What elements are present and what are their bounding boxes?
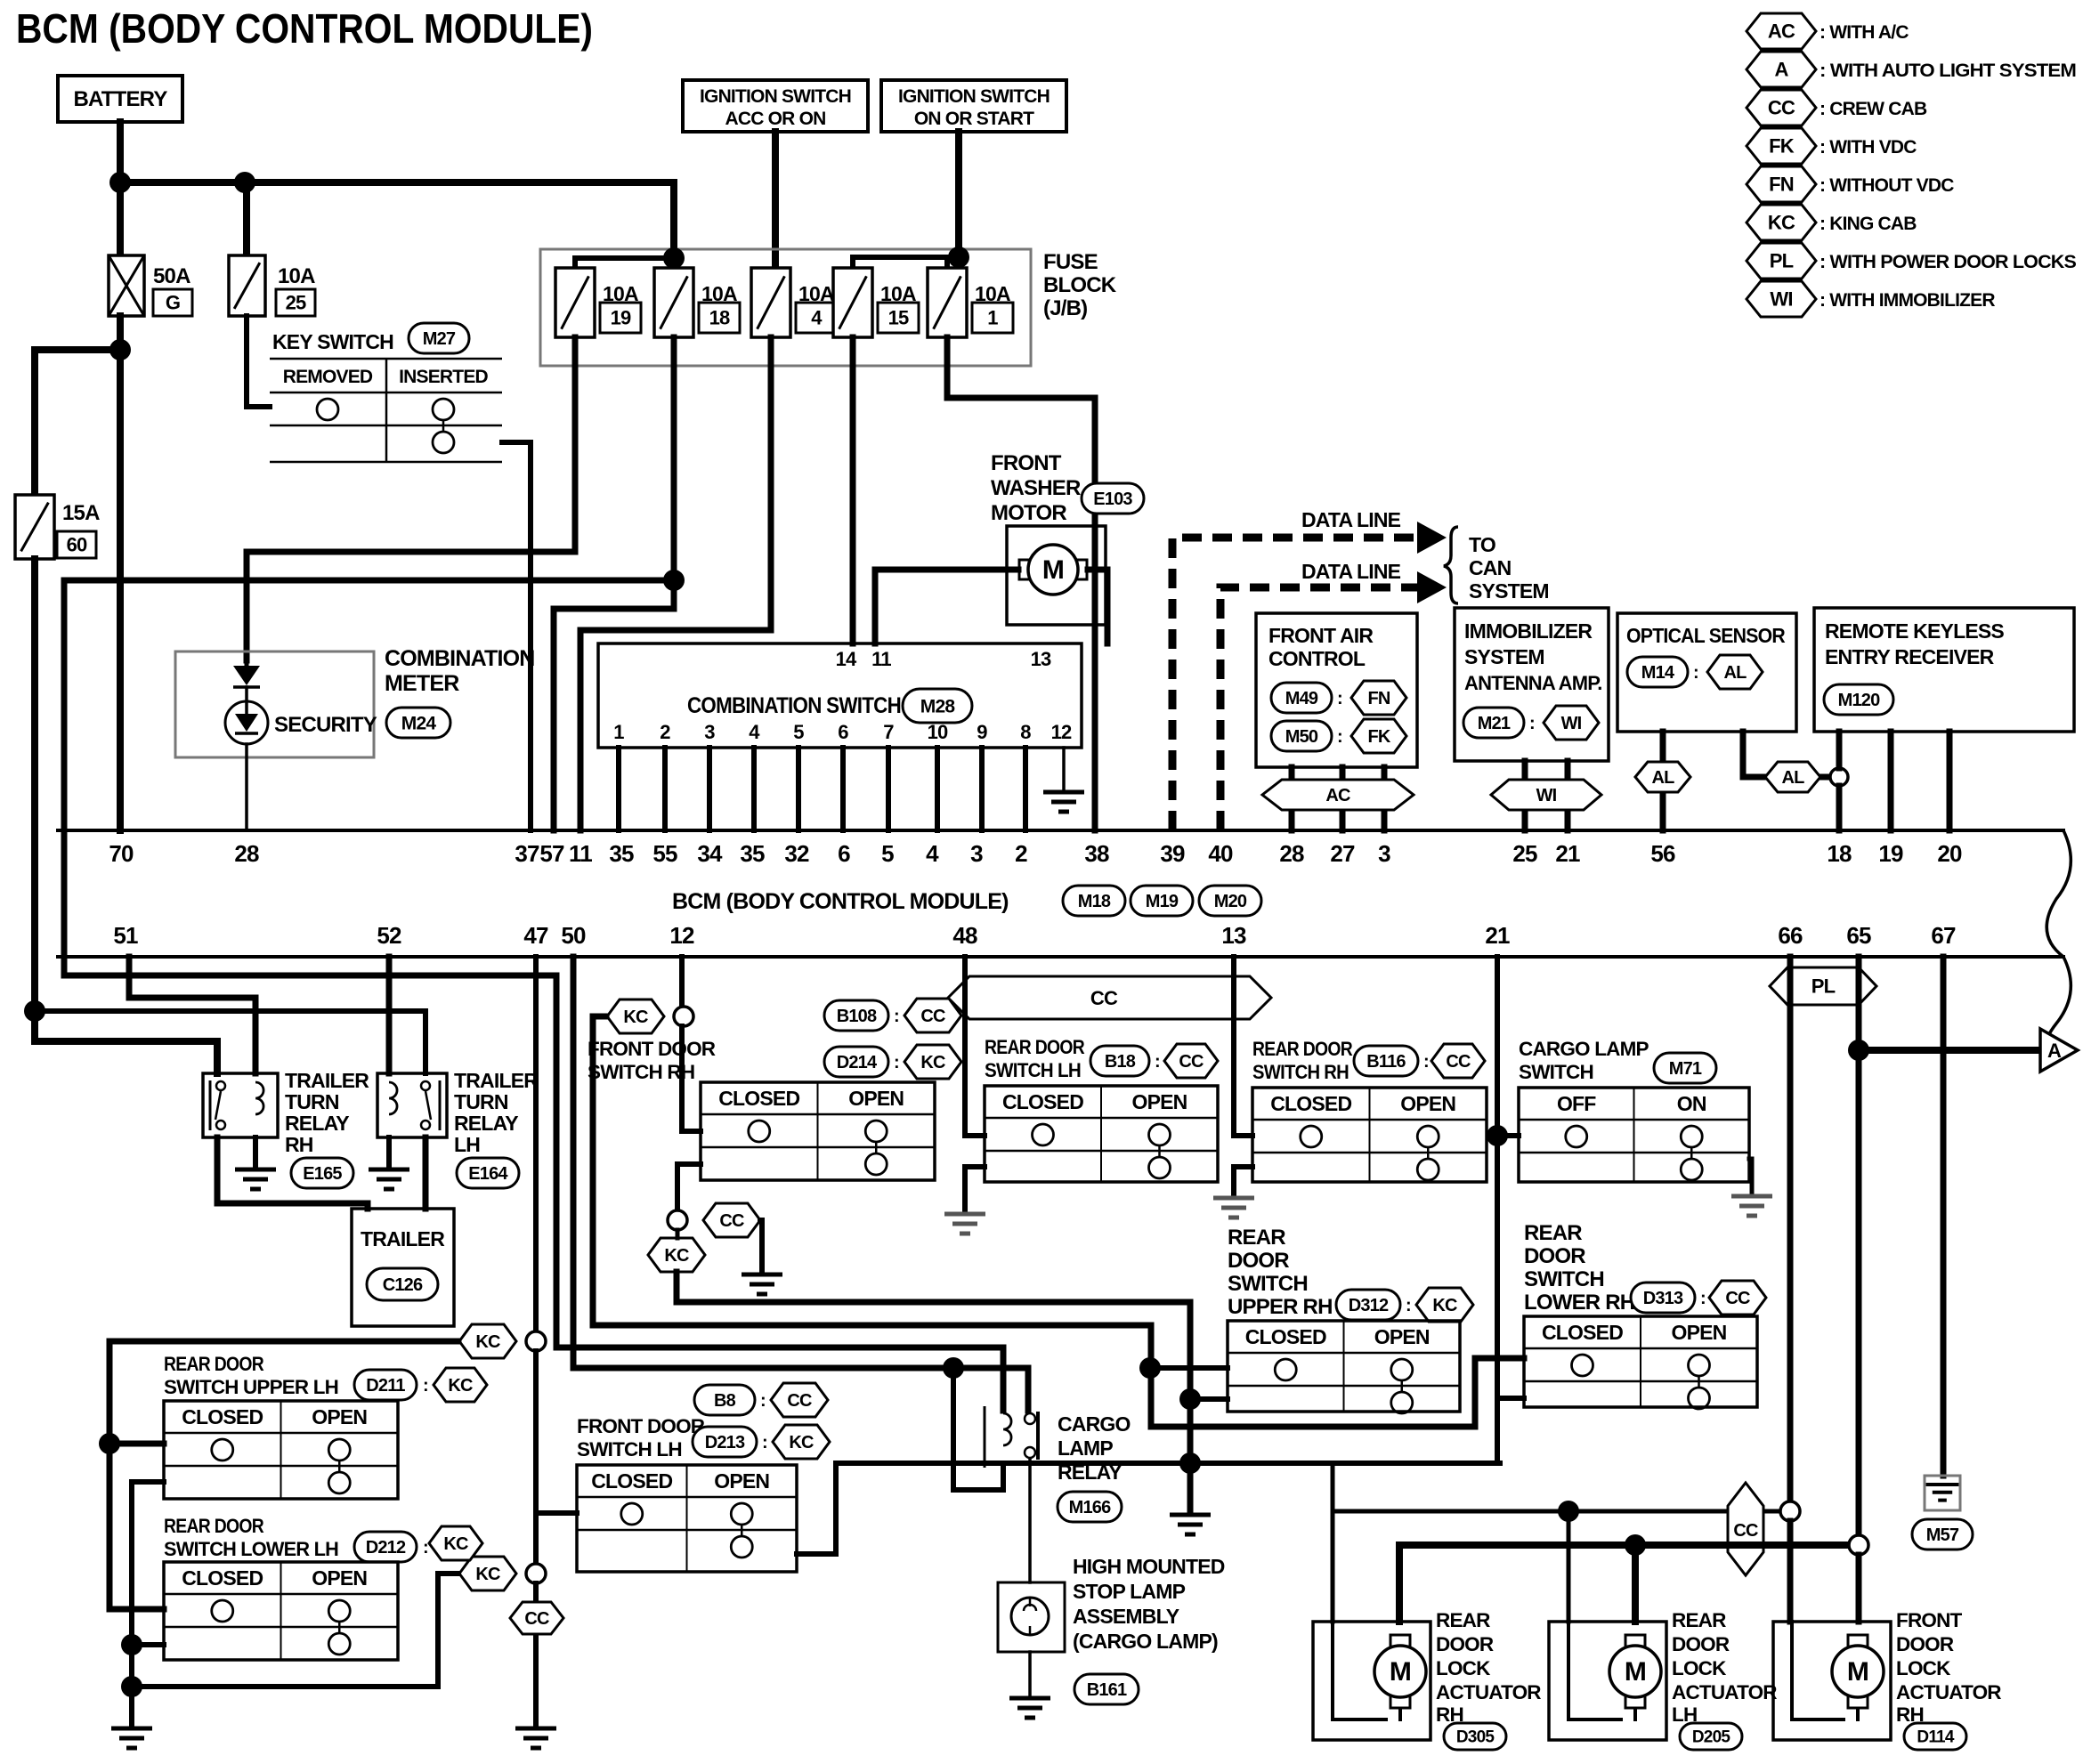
- svg-text:SECURITY: SECURITY: [274, 713, 377, 737]
- wire down to lower LH row2: [109, 1444, 164, 1609]
- svg-text:CLOSED: CLOSED: [1245, 1325, 1326, 1348]
- svg-text:BATTERY: BATTERY: [73, 87, 167, 111]
- svg-text:CLOSED: CLOSED: [591, 1469, 672, 1493]
- svg-text:55: 55: [652, 840, 677, 867]
- svg-text:E165: E165: [303, 1164, 342, 1184]
- svg-text:M: M: [1625, 1657, 1646, 1687]
- svg-text::: :: [1529, 714, 1535, 733]
- combination switch box M28: [598, 643, 1082, 748]
- svg-text:OFF: OFF: [1557, 1092, 1596, 1115]
- svg-text:50A: 50A: [153, 264, 190, 288]
- svg-text:28: 28: [1279, 840, 1304, 867]
- svg-text:CLOSED: CLOSED: [182, 1405, 263, 1428]
- wire upper LH row3 ground chain: [132, 1479, 164, 1485]
- svg-text:G: G: [166, 292, 180, 314]
- wire pin52 to trailer relay LH coil: [386, 957, 393, 1073]
- wire pin13 down to rear door switch RH: [1234, 957, 1252, 1136]
- legend A: [1747, 52, 1816, 87]
- svg-text:METER: METER: [385, 671, 459, 696]
- front air control box: [1256, 613, 1417, 767]
- svg-text:47: 47: [523, 922, 548, 949]
- front door switch LH table: [577, 1465, 797, 1572]
- svg-text:10A: 10A: [278, 264, 315, 288]
- svg-text:1: 1: [987, 307, 998, 329]
- junction upper RH row2 feed: [1139, 1357, 1161, 1379]
- AL hexagon 2: [1765, 762, 1820, 792]
- svg-text:A: A: [2047, 1040, 2062, 1062]
- svg-text:(CARGO LAMP): (CARGO LAMP): [1073, 1630, 1218, 1653]
- svg-text:67: 67: [1931, 922, 1956, 949]
- svg-text:SYSTEM: SYSTEM: [1464, 645, 1544, 668]
- svg-text:UPPER RH: UPPER RH: [1228, 1295, 1333, 1319]
- svg-text:: WITHOUT VDC: : WITHOUT VDC: [1820, 175, 1954, 196]
- svg-text:D212: D212: [366, 1538, 406, 1558]
- front washer motor box: [1007, 526, 1106, 625]
- wire pin21 to lower RH row3: [1497, 1396, 1524, 1401]
- svg-text:REAR DOOR: REAR DOOR: [164, 1515, 263, 1537]
- svg-text:OPEN: OPEN: [848, 1087, 904, 1110]
- svg-text:21: 21: [1555, 840, 1580, 867]
- svg-text:: CREW CAB: : CREW CAB: [1820, 99, 1927, 119]
- AC hexagon band: [1262, 780, 1414, 810]
- svg-text:KC: KC: [623, 1007, 648, 1027]
- legend FK: [1747, 128, 1816, 164]
- junction cargo relay common: [943, 1357, 964, 1379]
- connector circle KC front door LH: [526, 1331, 546, 1351]
- door lock actuator D305: [1313, 1622, 1431, 1740]
- svg-text:ACTUATOR: ACTUATOR: [1896, 1681, 2001, 1703]
- wire to upper RH row3: [1190, 1396, 1228, 1402]
- cargo lamp switch table: [1519, 1088, 1749, 1182]
- wire washer motor right to combo pin 13: [1088, 570, 1107, 643]
- svg-text:FUSE: FUSE: [1043, 250, 1098, 274]
- wire to upper LH row2: [109, 1441, 164, 1447]
- svg-text:ENTRY RECEIVER: ENTRY RECEIVER: [1825, 645, 1995, 668]
- wire pin66 down: [1787, 957, 1794, 1502]
- svg-text:ACTUATOR: ACTUATOR: [1672, 1681, 1777, 1703]
- svg-text:RELAY: RELAY: [454, 1112, 518, 1135]
- wire led internal: [245, 660, 249, 666]
- fusible link 50A G: [109, 255, 144, 316]
- svg-text:KC: KC: [475, 1565, 500, 1584]
- svg-text:REAR: REAR: [1436, 1609, 1490, 1631]
- svg-text:D114: D114: [1917, 1728, 1954, 1747]
- svg-text:CC: CC: [1725, 1289, 1750, 1308]
- svg-text:M: M: [1042, 555, 1064, 585]
- svg-text::: :: [1423, 1052, 1429, 1072]
- wire actuator LH left pin down: [1567, 1511, 1571, 1622]
- svg-text:18: 18: [709, 307, 730, 329]
- svg-text:TO: TO: [1469, 533, 1495, 556]
- svg-text::: :: [760, 1391, 766, 1411]
- svg-text:28: 28: [234, 840, 259, 867]
- svg-text:70: 70: [109, 840, 134, 867]
- M57 ground box: [1925, 1476, 1960, 1510]
- svg-text:M18: M18: [1078, 892, 1111, 911]
- PL hexagon band: [1770, 967, 1876, 1005]
- connector circle front RH chain: [668, 1210, 687, 1230]
- svg-text:4: 4: [811, 307, 823, 329]
- svg-text:34: 34: [697, 840, 723, 867]
- fuse 15A 60: [15, 495, 54, 559]
- wire fuse18 down: [554, 337, 674, 830]
- svg-text:FN: FN: [1769, 174, 1794, 196]
- svg-text:BCM (BODY CONTROL MODULE): BCM (BODY CONTROL MODULE): [672, 889, 1009, 914]
- svg-text:39: 39: [1160, 840, 1185, 867]
- svg-text:RELAY: RELAY: [1058, 1461, 1122, 1484]
- svg-text:LOWER RH: LOWER RH: [1524, 1291, 1634, 1315]
- KC hexagon door chain: [459, 1324, 516, 1358]
- svg-text:REAR DOOR: REAR DOOR: [164, 1353, 263, 1375]
- svg-text::: :: [423, 1376, 428, 1396]
- svg-text:15: 15: [888, 307, 909, 329]
- svg-text:27: 27: [1330, 840, 1355, 867]
- svg-text:KC: KC: [1768, 212, 1795, 234]
- svg-text:KC: KC: [664, 1246, 689, 1266]
- svg-text:SWITCH RH: SWITCH RH: [1252, 1061, 1349, 1083]
- svg-text:AL: AL: [1781, 768, 1804, 788]
- svg-text:M: M: [1390, 1657, 1411, 1687]
- svg-text:6: 6: [838, 721, 848, 743]
- svg-text:REAR DOOR: REAR DOOR: [985, 1036, 1084, 1058]
- connector B108 CC: [824, 1000, 888, 1031]
- svg-text::: :: [423, 1538, 428, 1558]
- junction 15A branch: [24, 1000, 45, 1022]
- BCM bus right break squiggle: [2045, 830, 2071, 1064]
- wires keyless to bus pins 18 19 20: [1836, 732, 1843, 768]
- wire to upper RH row2: [1150, 1365, 1228, 1371]
- svg-text:KC: KC: [1432, 1296, 1457, 1315]
- wire pin48 down to rear door switch LH: [965, 957, 985, 1136]
- svg-text:M21: M21: [1478, 714, 1511, 733]
- junction A arrow line: [1848, 1040, 1869, 1061]
- wire KC to upper LH switch: [109, 1341, 458, 1444]
- svg-text:14: 14: [836, 648, 857, 670]
- svg-text:LAMP: LAMP: [1058, 1436, 1113, 1460]
- junction upper RH row3 feed: [1179, 1388, 1201, 1410]
- svg-text:AL: AL: [1651, 768, 1674, 788]
- ground KC chain: [1170, 1515, 1211, 1534]
- combination meter box M24: [175, 651, 374, 757]
- rear door switch RH table: [1252, 1088, 1487, 1182]
- svg-text:52: 52: [377, 922, 401, 949]
- ground trailer relay RH coil: [235, 1169, 276, 1189]
- data line 2 dashed: [1220, 587, 1417, 830]
- svg-text:WI: WI: [1770, 288, 1792, 311]
- svg-text:HIGH MOUNTED: HIGH MOUNTED: [1073, 1555, 1225, 1578]
- wire pin67 down to M57: [1941, 957, 1947, 1476]
- svg-text:FRONT DOOR: FRONT DOOR: [588, 1038, 716, 1060]
- svg-text:REMOTE KEYLESS: REMOTE KEYLESS: [1825, 619, 2004, 643]
- svg-text:SWITCH LOWER LH: SWITCH LOWER LH: [164, 1538, 338, 1560]
- svg-text:15A: 15A: [62, 501, 100, 525]
- svg-text:4: 4: [749, 721, 760, 743]
- svg-text:BLOCK: BLOCK: [1043, 273, 1117, 297]
- junction 50A below: [109, 339, 131, 360]
- svg-text:CLOSED: CLOSED: [182, 1566, 263, 1590]
- svg-text:B108: B108: [837, 1007, 877, 1026]
- svg-text:CLOSED: CLOSED: [1002, 1090, 1083, 1113]
- CC hexagon front RH: [703, 1203, 760, 1237]
- BCM bus lower line: [58, 955, 2063, 959]
- KC hexagon below circle: [648, 1238, 705, 1272]
- svg-text:DOOR: DOOR: [1524, 1244, 1585, 1268]
- svg-text:: WITH VDC: : WITH VDC: [1820, 137, 1917, 158]
- fuse 10A 15: [833, 268, 872, 337]
- wire battery feed to fuse block: [120, 182, 674, 258]
- svg-text:DOOR: DOOR: [1228, 1249, 1289, 1273]
- svg-text:D313: D313: [1643, 1289, 1683, 1308]
- fuse block internal feed wires: [575, 255, 674, 261]
- svg-text:SYSTEM: SYSTEM: [1469, 579, 1549, 603]
- svg-text:60: 60: [67, 534, 87, 556]
- svg-text:37: 37: [515, 840, 539, 867]
- wire CC to ground: [760, 1220, 762, 1273]
- svg-text:35: 35: [609, 840, 634, 867]
- svg-text:48: 48: [952, 922, 977, 949]
- ground stop lamp: [1009, 1698, 1050, 1718]
- svg-text:E103: E103: [1093, 490, 1132, 509]
- svg-text:LOCK: LOCK: [1896, 1657, 1951, 1679]
- svg-text:M57: M57: [1926, 1525, 1959, 1545]
- svg-text:FK: FK: [1769, 135, 1795, 158]
- svg-text:IGNITION SWITCH: IGNITION SWITCH: [700, 86, 851, 107]
- high mounted stop lamp assembly box: [998, 1582, 1065, 1652]
- A arrow triangle: [2040, 1029, 2078, 1072]
- svg-text:REAR: REAR: [1672, 1609, 1726, 1631]
- svg-text:RELAY: RELAY: [285, 1112, 349, 1135]
- svg-text:REAR DOOR: REAR DOOR: [1252, 1038, 1352, 1060]
- rear door switch LH table: [985, 1086, 1218, 1182]
- svg-text:DATA LINE: DATA LINE: [1301, 508, 1401, 531]
- svg-text:FRONT: FRONT: [1896, 1609, 1963, 1631]
- wire fuse 25 to key switch: [247, 316, 270, 407]
- wire relay RH coil ground: [253, 1137, 258, 1168]
- CC vertical hexagon: [1728, 1483, 1763, 1575]
- svg-text:OPEN: OPEN: [312, 1566, 367, 1590]
- svg-text::: :: [1406, 1296, 1411, 1315]
- svg-text:OPEN: OPEN: [1672, 1321, 1727, 1344]
- battery: [58, 76, 182, 122]
- svg-text:SWITCH LH: SWITCH LH: [985, 1059, 1081, 1081]
- svg-text:11: 11: [569, 840, 592, 867]
- wire meter to bus pin 28: [245, 744, 248, 830]
- svg-text:57: 57: [539, 840, 564, 867]
- wire rear RH row3 ground: [1234, 1167, 1252, 1194]
- wire pin66 circle down to front actuator: [1787, 1521, 1794, 1622]
- svg-text:CC: CC: [524, 1609, 549, 1629]
- wire ign acc down to fuse 4: [772, 132, 779, 267]
- wire front RH row3 down: [677, 1164, 701, 1210]
- wire 652bus drop to cargo relay coil: [556, 975, 1003, 1411]
- fuse 10A 18: [654, 268, 693, 337]
- svg-text:E164: E164: [468, 1164, 508, 1184]
- wires front air control to bus: [1289, 767, 1295, 830]
- wire ign start down to fuse 1: [955, 132, 962, 257]
- wires immobilizer to bus: [1522, 761, 1528, 830]
- svg-text:FRONT DOOR: FRONT DOOR: [577, 1415, 705, 1437]
- svg-text:CC: CC: [920, 1007, 945, 1026]
- KC hexagon 4: [459, 1557, 516, 1590]
- svg-text:M50: M50: [1285, 727, 1318, 747]
- svg-text:D213: D213: [705, 1433, 745, 1452]
- svg-text:A: A: [1774, 59, 1788, 81]
- rear door switch upper LH table: [164, 1401, 398, 1499]
- rear door switch upper RH table: [1228, 1321, 1460, 1412]
- svg-text:5: 5: [793, 721, 804, 743]
- svg-text:M166: M166: [1069, 1498, 1112, 1517]
- svg-text:3: 3: [970, 840, 983, 867]
- svg-text:CC: CC: [1090, 987, 1118, 1009]
- svg-text:D214: D214: [837, 1053, 878, 1072]
- svg-text:LOCK: LOCK: [1672, 1657, 1727, 1679]
- svg-text::: :: [1337, 727, 1342, 747]
- junction actuator LH right pin: [1625, 1534, 1646, 1556]
- svg-text:9: 9: [977, 721, 987, 743]
- ground trailer relay LH coil: [369, 1169, 409, 1189]
- junction fuse 25 tap: [234, 172, 255, 193]
- svg-text:CAN: CAN: [1469, 556, 1512, 579]
- svg-text:20: 20: [1937, 840, 1962, 867]
- svg-text:(J/B): (J/B): [1043, 296, 1087, 320]
- svg-text:M120: M120: [1838, 691, 1881, 710]
- legend WI: [1747, 281, 1816, 317]
- connector circle pin66 line: [1780, 1501, 1800, 1521]
- wire stop lamp ground: [1028, 1652, 1032, 1696]
- svg-text:CLOSED: CLOSED: [1270, 1092, 1351, 1115]
- svg-text:OPEN: OPEN: [312, 1405, 367, 1428]
- svg-text:D205: D205: [1692, 1728, 1730, 1747]
- svg-text:CC: CC: [1768, 97, 1795, 119]
- svg-text:13: 13: [1031, 648, 1051, 670]
- svg-text:CARGO: CARGO: [1058, 1412, 1131, 1436]
- junction fuse18 bus652: [663, 570, 685, 591]
- svg-text:OPEN: OPEN: [1132, 1090, 1187, 1113]
- svg-text:COMBINATION SWITCH: COMBINATION SWITCH: [687, 693, 901, 718]
- CC band connector: [948, 976, 1271, 1019]
- fuse 10A 4: [751, 268, 790, 337]
- wire pin47 to front door LH row2: [536, 1510, 577, 1516]
- junction battery node: [109, 172, 131, 193]
- svg-text:FRONT AIR: FRONT AIR: [1268, 624, 1374, 647]
- wire relay RH contact to trailer box: [217, 1137, 368, 1209]
- svg-text:AL: AL: [1723, 663, 1747, 683]
- svg-text:19: 19: [611, 307, 631, 329]
- svg-text:CLOSED: CLOSED: [718, 1087, 799, 1110]
- svg-text:ON: ON: [1677, 1092, 1706, 1115]
- wire pin12 to front door RH row2: [682, 1026, 701, 1131]
- legend AC: [1747, 13, 1816, 49]
- wire ground chain lower: [533, 1583, 539, 1727]
- svg-text:3: 3: [704, 721, 715, 743]
- connector circle KC 2: [526, 1564, 546, 1583]
- svg-text:CC: CC: [1179, 1052, 1204, 1072]
- svg-text:INSERTED: INSERTED: [399, 367, 488, 387]
- wire 15A down long: [35, 559, 217, 1073]
- svg-text:CC: CC: [719, 1211, 744, 1231]
- AL hexagon 1: [1635, 762, 1690, 792]
- wire key switch to bus pin 37: [502, 442, 531, 830]
- wire cargo switch ON to ground: [1749, 1159, 1752, 1193]
- junction KC4 link: [121, 1676, 142, 1697]
- junction upper LH feed: [99, 1433, 120, 1454]
- WI hexagon band: [1491, 780, 1601, 810]
- svg-text:18: 18: [1827, 840, 1852, 867]
- connector B8 CC: [694, 1385, 755, 1415]
- wire fuse4 down to pin 11: [580, 337, 771, 830]
- svg-text:B161: B161: [1087, 1680, 1127, 1700]
- svg-text:CC: CC: [1733, 1521, 1758, 1541]
- svg-text:BCM (BODY CONTROL MODULE): BCM (BODY CONTROL MODULE): [16, 5, 593, 52]
- svg-text:OPEN: OPEN: [714, 1469, 769, 1493]
- svg-text:21: 21: [1485, 922, 1510, 949]
- svg-text:REMOVED: REMOVED: [283, 367, 373, 387]
- legend FN: [1747, 166, 1816, 202]
- combination switch bottom pin wires: [616, 748, 621, 830]
- connector M14 AL: [1627, 657, 1688, 687]
- security LED: [225, 701, 268, 744]
- ground rear door switch RH: [1213, 1198, 1254, 1218]
- svg-text:32: 32: [784, 840, 809, 867]
- svg-text:ON OR START: ON OR START: [914, 109, 1034, 129]
- svg-text:C126: C126: [383, 1275, 423, 1295]
- svg-text:KC: KC: [475, 1332, 500, 1352]
- svg-text:WI: WI: [1536, 786, 1557, 805]
- svg-text:M49: M49: [1285, 689, 1318, 708]
- svg-text:CARGO LAMP: CARGO LAMP: [1519, 1038, 1649, 1060]
- wire actuator RH motor pin: [1396, 1545, 1403, 1622]
- door lock actuator D205: [1549, 1622, 1666, 1740]
- svg-text:5: 5: [881, 840, 894, 867]
- ground cargo lamp switch: [1731, 1196, 1772, 1216]
- wire actuator RH left pin: [1331, 1511, 1335, 1622]
- svg-text:D305: D305: [1456, 1728, 1495, 1747]
- svg-text:PL: PL: [1811, 975, 1836, 998]
- wire pin21 down: [1495, 957, 1500, 1463]
- svg-text:CONTROL: CONTROL: [1268, 647, 1366, 670]
- wire optical sensor to AL circle: [1743, 732, 1830, 777]
- svg-text:LH: LH: [454, 1133, 480, 1156]
- label 60 box: [57, 531, 96, 558]
- svg-text:DOOR: DOOR: [1896, 1633, 1954, 1655]
- trailer box C126: [352, 1209, 454, 1326]
- svg-text:TRAILER: TRAILER: [285, 1069, 369, 1092]
- svg-text:B8: B8: [714, 1391, 736, 1411]
- svg-text:SWITCH: SWITCH: [1519, 1061, 1593, 1083]
- svg-text:LOCK: LOCK: [1436, 1657, 1491, 1679]
- svg-text::: :: [1700, 1289, 1706, 1308]
- svg-text:M19: M19: [1146, 892, 1179, 911]
- svg-text:ASSEMBLY: ASSEMBLY: [1073, 1605, 1179, 1628]
- ground CC branch: [742, 1274, 782, 1294]
- svg-text:66: 66: [1778, 922, 1803, 949]
- connector circle AL to keyless: [1830, 768, 1848, 786]
- svg-text:B116: B116: [1366, 1052, 1406, 1072]
- svg-text:38: 38: [1084, 840, 1109, 867]
- svg-text:FK: FK: [1367, 727, 1390, 747]
- svg-text:D312: D312: [1349, 1296, 1389, 1315]
- label 25 box: [276, 289, 315, 316]
- svg-text:OPEN: OPEN: [1400, 1092, 1455, 1115]
- wire relay LH contact to trailer box: [423, 1137, 429, 1209]
- svg-text:4: 4: [926, 840, 939, 867]
- wire battery down: [117, 122, 124, 318]
- svg-text:13: 13: [1221, 922, 1246, 949]
- data line 1 dashed: [1172, 538, 1417, 830]
- svg-text:PL: PL: [1770, 250, 1794, 272]
- BCM bus upper line: [58, 829, 2063, 832]
- svg-text:D211: D211: [366, 1376, 405, 1396]
